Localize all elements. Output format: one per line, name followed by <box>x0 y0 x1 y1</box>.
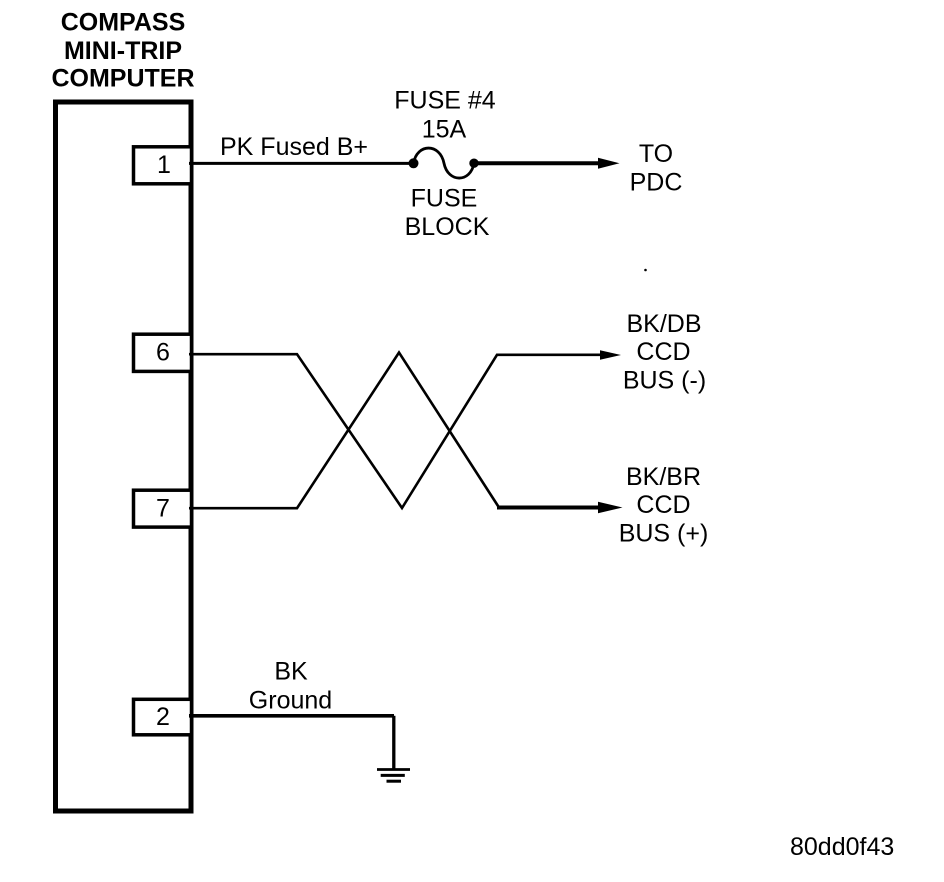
svg-text:TO: TO <box>639 140 673 168</box>
svg-text:PDC: PDC <box>630 169 683 197</box>
svg-text:COMPASS: COMPASS <box>61 8 186 36</box>
svg-text:BK/BR: BK/BR <box>626 463 701 491</box>
svg-text:BLOCK: BLOCK <box>405 213 490 241</box>
svg-text:FUSE #4: FUSE #4 <box>394 87 496 115</box>
svg-text:7: 7 <box>156 495 170 523</box>
svg-text:2: 2 <box>156 703 170 731</box>
svg-text:15A: 15A <box>422 116 467 144</box>
svg-text:MINI-TRIP: MINI-TRIP <box>64 37 182 65</box>
svg-text:BUS (-): BUS (-) <box>623 367 706 395</box>
svg-text:BK/DB: BK/DB <box>626 310 701 338</box>
svg-text:BUS (+): BUS (+) <box>619 520 709 548</box>
svg-text:PK Fused B+: PK Fused B+ <box>220 133 368 161</box>
svg-text:80dd0f43: 80dd0f43 <box>790 833 894 861</box>
svg-text:FUSE: FUSE <box>411 185 478 213</box>
svg-text:CCD: CCD <box>636 491 690 519</box>
svg-text:CCD: CCD <box>636 338 690 366</box>
svg-text:COMPUTER: COMPUTER <box>51 65 194 93</box>
svg-text:1: 1 <box>157 151 171 179</box>
svg-text:BK: BK <box>274 658 308 686</box>
svg-text:Ground: Ground <box>249 687 332 715</box>
svg-text:6: 6 <box>156 339 170 367</box>
